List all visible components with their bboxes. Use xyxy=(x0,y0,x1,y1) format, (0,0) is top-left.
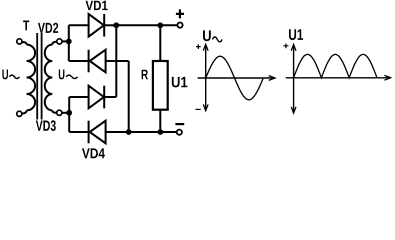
diode VD3 xyxy=(89,86,104,109)
waveform 2 vertical axis bottom arrow xyxy=(291,107,296,113)
waveform 1 label U~ xyxy=(203,30,211,41)
label VD2 xyxy=(38,23,58,33)
wire AC1 vertical (VD1 row to VD2 row) xyxy=(68,25,70,61)
node R bottom junction dot xyxy=(157,129,163,135)
transformer T primary top terminal xyxy=(17,39,22,44)
transformer T primary winding xyxy=(27,45,36,111)
wire VD2 cathode xyxy=(69,60,89,62)
label VD4 xyxy=(82,148,105,158)
label U~ primary voltage xyxy=(2,70,8,80)
wire AC2 terminal to junction xyxy=(62,112,69,114)
wire bottom rail to minus terminal xyxy=(129,131,177,133)
label U1 output voltage xyxy=(172,77,188,88)
wire VD4 anode to bottom rail xyxy=(106,131,129,133)
transformer T secondary top lead wire xyxy=(52,42,57,45)
resistor R xyxy=(153,61,168,110)
wire minus bus vertical VD2 to bottom rail xyxy=(128,61,130,132)
label minus sign xyxy=(175,123,184,125)
diode VD1 xyxy=(89,14,104,37)
waveform 1 label sine symbol xyxy=(212,37,222,42)
wire VD3 cathode to plus bus xyxy=(104,96,116,98)
wire VD3 anode xyxy=(69,96,88,98)
wire VD1 anode xyxy=(69,24,89,26)
waveform 1 vertical axis top arrow xyxy=(203,44,208,50)
waveform 2 horizontal axis arrow xyxy=(384,75,390,80)
waveform 1 vertical axis bottom arrow xyxy=(203,104,208,110)
wire R bottom stub xyxy=(159,110,161,132)
node minus bus bottom junction dot xyxy=(126,129,132,135)
wire plus bus vertical VD1-VD3 xyxy=(115,25,117,97)
label plus sign xyxy=(176,9,184,18)
node VD1 cathode junction dot xyxy=(113,22,119,28)
wire R top stub xyxy=(159,25,161,61)
diode VD2 xyxy=(90,50,106,73)
wire AC2 vertical (VD3 row to VD4 row) xyxy=(68,97,70,132)
label U~ primary sine symbol xyxy=(9,75,19,78)
waveform 2 rectified curve xyxy=(294,54,377,78)
wire VD1 cathode to plus bus xyxy=(104,24,116,26)
terminal plus output xyxy=(177,23,182,28)
wire VD4 cathode xyxy=(69,131,88,133)
waveform 2 vertical axis xyxy=(293,46,295,112)
terminal minus output xyxy=(177,130,182,135)
node R top junction dot xyxy=(157,22,163,28)
waveform 2 horizontal axis xyxy=(286,77,390,79)
transformer T primary top lead wire xyxy=(22,42,27,44)
label VD1 xyxy=(86,1,108,10)
label VD3 xyxy=(36,120,56,131)
diode VD4 xyxy=(90,121,106,144)
wire top rail to plus terminal xyxy=(116,24,177,26)
transformer T secondary bottom terminal xyxy=(57,110,62,115)
waveform 1 plus label xyxy=(196,44,201,49)
waveform 1 sine curve xyxy=(206,56,264,100)
transformer T secondary winding xyxy=(45,45,53,111)
transformer T core xyxy=(36,33,38,120)
label U~ secondary voltage xyxy=(59,70,65,80)
waveform 1 horizontal axis xyxy=(198,77,274,79)
waveform 1 horizontal axis arrow xyxy=(269,76,275,81)
transformer T secondary top terminal xyxy=(57,39,62,44)
transformer T primary bottom lead wire xyxy=(22,110,27,113)
waveform 1 vertical axis xyxy=(205,46,207,110)
waveform 2 label U1 xyxy=(289,29,303,40)
transformer T primary bottom terminal xyxy=(17,111,22,116)
transformer T label xyxy=(23,21,29,31)
node AC1 junction dot xyxy=(66,39,72,45)
node AC2 junction dot xyxy=(66,110,72,116)
waveform 1 minus label xyxy=(196,108,201,110)
transformer T secondary bottom lead wire xyxy=(52,110,56,112)
label U~ secondary sine symbol xyxy=(66,75,78,78)
label R xyxy=(142,70,148,80)
wire AC1 terminal to junction xyxy=(62,40,69,42)
wire VD2 anode to minus bus xyxy=(106,60,129,62)
waveform 2 vertical axis top arrow xyxy=(291,45,296,51)
waveform 2 plus label xyxy=(283,44,288,49)
